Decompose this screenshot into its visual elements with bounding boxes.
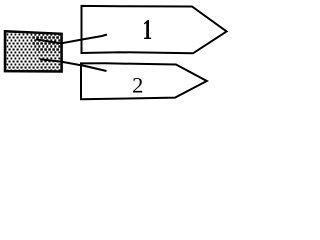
svg-text:1: 1 xyxy=(143,14,153,46)
svg-text:2: 2 xyxy=(132,72,143,97)
